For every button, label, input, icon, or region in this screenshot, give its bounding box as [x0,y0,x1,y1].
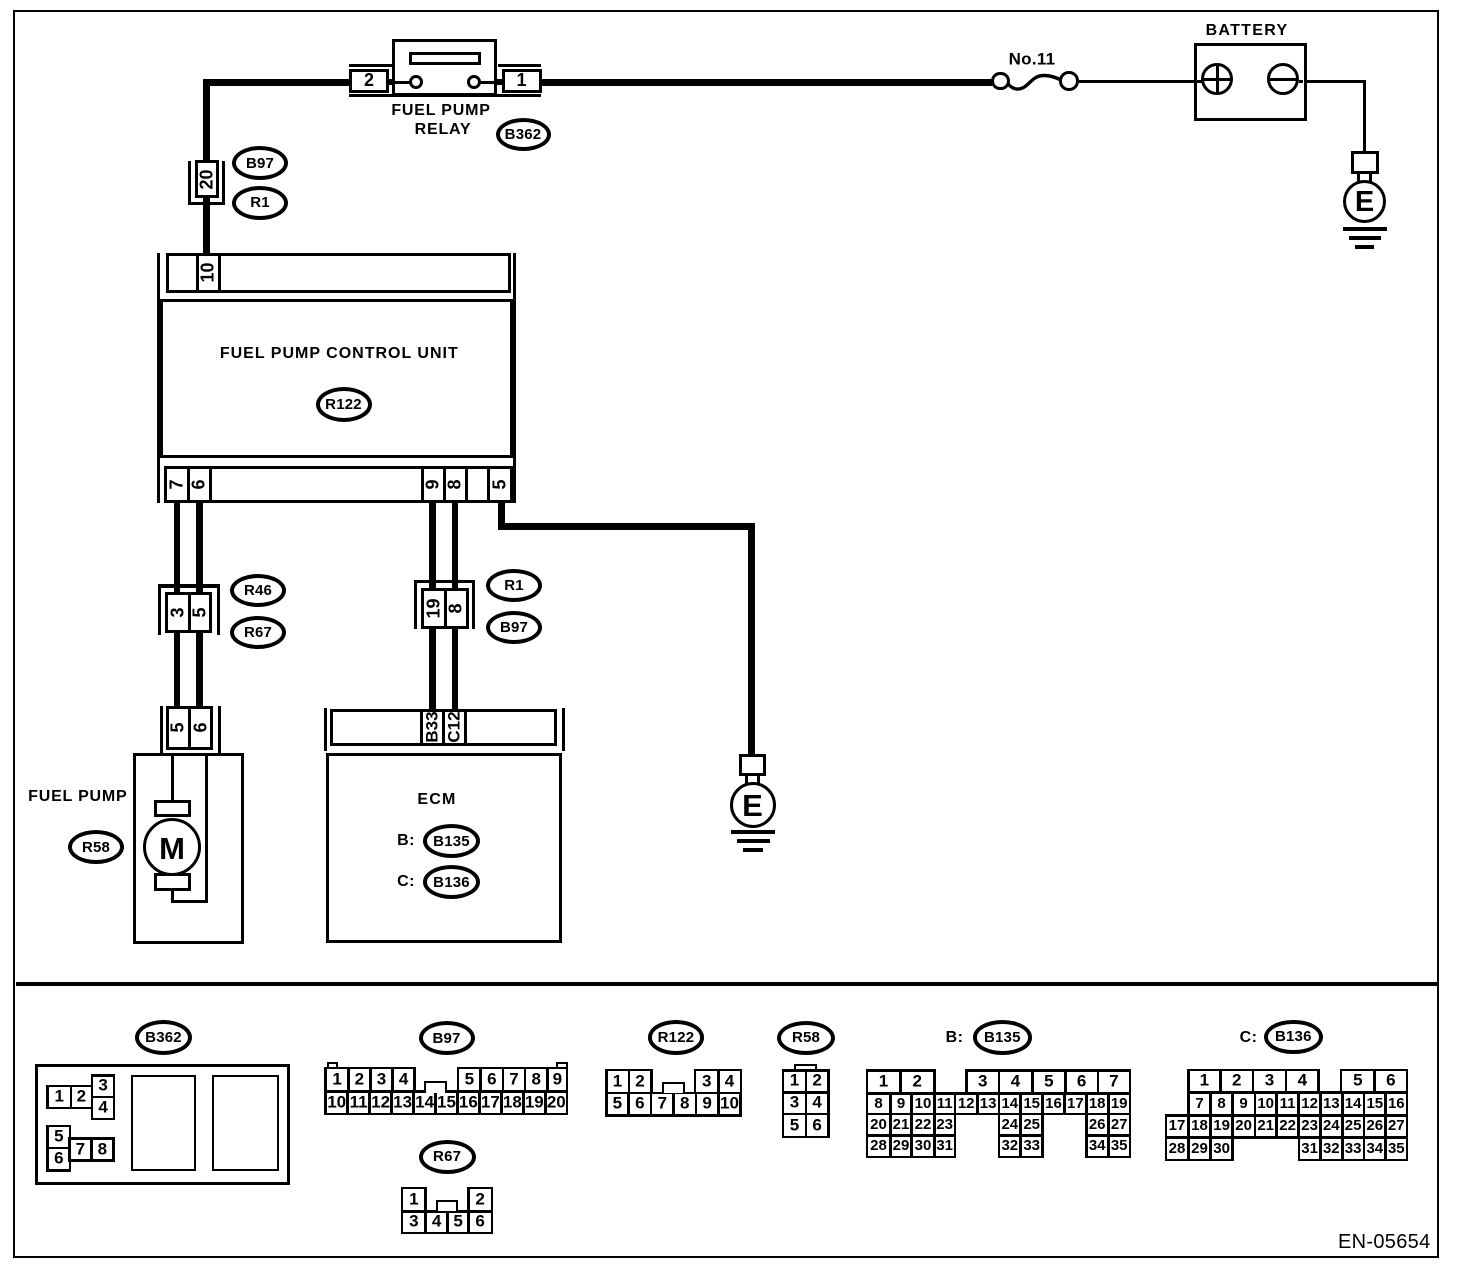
motor brush rectangle top [154,800,191,817]
fuse No.11 symbol [1005,68,1065,98]
control unit bottom connector strip pins 7 6 9 8 5 [164,466,513,504]
connector pinout R122 [648,1020,705,1055]
connector R46/R67 bracket [158,584,220,587]
fuel pump box [133,753,244,945]
wire pin 5 ground vertical run [748,523,755,754]
fuse No.11 label [1009,51,1056,70]
connector pinout B135 with label B: [946,1029,964,1047]
wire control unit pin 5 to ground (vertical drop) [498,503,505,523]
fuel pump relay U:B362 socket bracket left [349,64,393,67]
wire battery negative to ground [1307,80,1367,83]
wire control unit pin 9 down [429,503,436,588]
separator line [16,982,1437,986]
wire battery feed from relay pin 2 (horizontal) [203,79,350,86]
label FUEL PUMP [28,788,127,806]
connector pinout R67 [419,1140,476,1174]
pump internal wire from pin 5 [171,755,174,801]
relay contact wire left [395,81,410,84]
designator oval B97 (inline) [486,611,542,644]
connector pinout B97 [419,1021,475,1055]
motor brush rectangle bottom [154,873,191,892]
label C: with oval B136 [397,873,415,891]
label B: with oval B135 [397,832,415,850]
connector R1/B97 bracket [414,580,475,583]
wire pin 5 to pump connector 6 [196,633,203,706]
ground E chassis (pin 5) [739,754,766,777]
control unit main box [160,299,513,458]
drawing number EN-05654 [1338,1231,1430,1253]
wire pin 3 to pump connector 5 [174,633,181,706]
pump connector pins 5/6 box [166,706,213,750]
connector designator oval B362 [496,118,551,151]
wire pin 5 ground horizontal run [498,523,755,530]
wire pin 8 to ECM C12 [452,629,459,709]
connector pins 19/8 box [421,588,469,629]
relay body [392,39,497,97]
connector pin 20 box [195,160,219,198]
fuel pump relay socket bracket bottom [349,94,541,97]
relay contact wire right [480,81,496,84]
designator oval R58 (pump) [68,830,124,864]
designator oval R122 (unit) [316,387,372,422]
battery label [1206,22,1289,40]
pump internal wire from pin 6 right side loop [205,755,208,903]
pump connector 5/6 bracket stubs [160,706,163,753]
ECM connector strip with pins B33 C12 [330,709,557,747]
connector pinout B362 [135,1020,192,1055]
connector 20 bracket [188,161,191,205]
connector designator oval B97 (top) [232,146,288,180]
ground E battery side [1351,151,1379,173]
designator oval R67 (inline) [230,616,286,649]
relay pin 2 terminal box [349,69,389,93]
relay pin 1 terminal box [502,69,542,93]
relay contact circle right [467,75,481,89]
wire fuse to battery positive [1079,80,1195,83]
designator oval R1 (inline) [486,569,542,602]
label FUEL PUMP RELAY [391,102,490,120]
relay contact circle left [409,75,423,89]
stub wire relay body to box1 [497,79,503,85]
connector pinout R58 [777,1021,835,1055]
ECM bracket stubs [324,708,327,751]
wire through connector 20 down to control unit pin 10 [203,196,210,254]
connector designator oval R1 (top) [232,186,288,220]
fuel pump control unit R122 side brackets [157,253,160,504]
battery box [1194,43,1307,121]
wire battery feed vertical drop to connector 20 [203,79,210,162]
wire control unit pin 6 down [196,503,203,592]
connector pinout B136 with label C: [1240,1029,1258,1047]
motor M circle [143,818,202,877]
label FUEL PUMP CONTROL UNIT [220,345,459,363]
designator oval R46 [230,574,286,607]
battery negative terminal [1267,63,1300,96]
ECM box [326,753,562,943]
label ECM [417,791,456,809]
wire relay pin1 to fuse No.11 [541,79,992,86]
fuel pump relay socket bracket right [498,64,542,67]
wire pin 19 to ECM B33 [429,629,436,709]
wire control unit pin 8 down [452,503,459,588]
connector pins 3/5 box [165,592,212,633]
wire control unit pin 7 down [174,503,181,592]
stub wire box2 to relay body [389,79,394,85]
battery positive terminal [1197,80,1202,83]
relay coil rectangle [409,52,481,65]
control unit top connector strip with pin 10 [166,253,511,293]
